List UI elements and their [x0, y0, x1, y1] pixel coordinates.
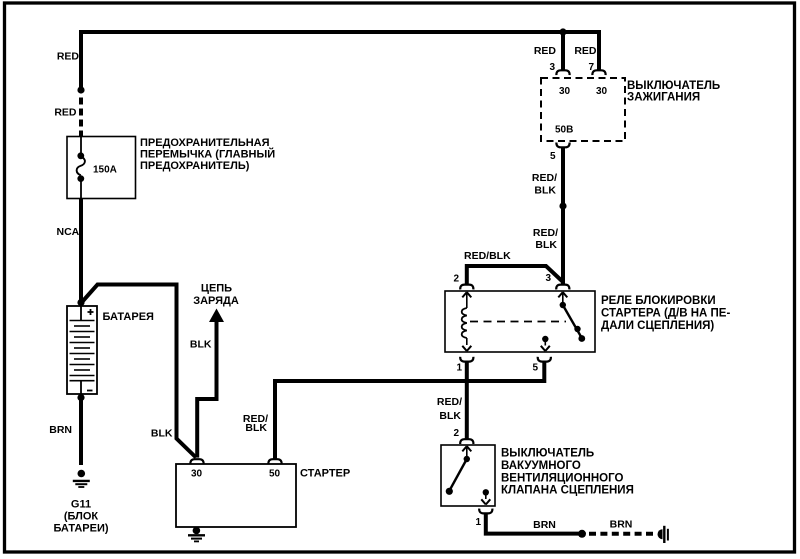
svg-text:ЗАРЯДА: ЗАРЯДА — [193, 295, 239, 307]
svg-text:50В: 50В — [555, 125, 573, 136]
relay switch — [558, 292, 567, 297]
svg-text:ЗАЖИГАНИЯ: ЗАЖИГАНИЯ — [627, 92, 700, 104]
svg-text:BRN: BRN — [49, 424, 72, 436]
battery — [67, 306, 97, 394]
node: BRN splice — [578, 530, 586, 538]
wire: RED/BLK relay pin 1 to clutch switch — [465, 361, 469, 438]
svg-text:BLK: BLK — [245, 422, 267, 434]
relay K1: starter interlock — [445, 285, 595, 362]
node: splice on RED/BLK — [559, 202, 566, 209]
label RED/BLK (lower) — [533, 227, 558, 251]
wire: RED drop to battery circuit — [79, 30, 83, 88]
relay pin 5 contact — [542, 336, 548, 342]
ground G11 — [73, 470, 90, 487]
fuse F1 150A (main fuse box) — [67, 137, 136, 199]
svg-text:BLK: BLK — [439, 410, 461, 422]
svg-text:ВЫКЛЮЧАТЕЛЬ: ВЫКЛЮЧАТЕЛЬ — [501, 448, 594, 460]
svg-text:ВЫКЛЮЧАТЕЛЬ: ВЫКЛЮЧАТЕЛЬ — [627, 80, 720, 92]
label RED/BLK (to clutch switch) — [437, 396, 462, 422]
svg-text:ВЕНТИЛЯЦИОННОГО: ВЕНТИЛЯЦИОННОГО — [501, 472, 623, 484]
svg-text:30: 30 — [596, 86, 608, 97]
svg-text:КЛАПАНА СЦЕПЛЕНИЯ: КЛАПАНА СЦЕПЛЕНИЯ — [501, 485, 634, 497]
svg-text:BRN: BRN — [533, 519, 556, 531]
svg-text:30: 30 — [559, 86, 571, 97]
wire: RED feed bus (top) — [81, 32, 599, 70]
ignition switch (dashed box) — [541, 70, 625, 147]
wire: BLK battery positive to starter terminal 30 — [82, 285, 196, 458]
node: battery negative terminal — [77, 394, 84, 401]
svg-text:150A: 150A — [93, 165, 117, 176]
svg-text:RED/: RED/ — [533, 227, 558, 239]
wire: RED/BLK branch to relay pin 2 — [467, 266, 563, 284]
svg-text:СТАРТЕР: СТАРТЕР — [300, 468, 350, 480]
svg-text:RED: RED — [534, 45, 557, 57]
label: clutch switch title — [501, 448, 634, 497]
svg-text:БАТАРЕИ): БАТАРЕИ) — [53, 523, 108, 535]
clutch vacuum vent valve switch — [441, 439, 495, 513]
svg-text:БАТАРЕЯ: БАТАРЕЯ — [103, 311, 155, 323]
svg-text:50: 50 — [269, 469, 281, 480]
svg-text:G11: G11 — [71, 499, 91, 511]
svg-text:RED/: RED/ — [532, 172, 557, 184]
svg-text:5: 5 — [532, 363, 538, 374]
node: battery positive terminal — [77, 299, 84, 306]
svg-text:RED/BLK: RED/BLK — [464, 250, 511, 262]
label: relay title — [601, 295, 730, 332]
relay internal dashed link — [470, 321, 566, 323]
svg-text:NCA: NCA — [57, 226, 80, 238]
wire: BLK to charge circuit (arrow off-page) — [197, 309, 224, 458]
relay coil — [462, 292, 471, 297]
svg-text:RED/: RED/ — [437, 396, 462, 408]
label RED/BLK (upper) — [532, 172, 557, 197]
label: charge circuit — [193, 283, 239, 307]
svg-text:РЕЛЕ БЛОКИРОВКИ: РЕЛЕ БЛОКИРОВКИ — [601, 295, 716, 307]
svg-text:BLK: BLK — [151, 428, 173, 440]
wire: RED/BLK starter 50 to relay pin 5 — [275, 361, 544, 459]
svg-text:ПРЕДОХРАНИТЕЛЬ): ПРЕДОХРАНИТЕЛЬ) — [140, 160, 250, 172]
label G11 (battery block) — [53, 499, 108, 535]
svg-text:5: 5 — [550, 151, 556, 162]
node: splice on RED bus — [559, 28, 566, 35]
svg-text:7: 7 — [588, 62, 594, 73]
svg-text:RED: RED — [54, 107, 77, 119]
wire: BRN clutch switch to splice — [486, 513, 580, 533]
label RED/BLK (starter 50 wire) — [243, 413, 268, 434]
wire: BRN battery to ground — [79, 396, 83, 465]
svg-text:(БЛОК: (БЛОК — [64, 511, 99, 523]
svg-text:ВАКУУМНОГО: ВАКУУМНОГО — [501, 460, 581, 472]
svg-text:ПРЕДОХРАНИТЕЛЬНАЯ: ПРЕДОХРАНИТЕЛЬНАЯ — [140, 137, 270, 149]
svg-text:BLK: BLK — [190, 339, 212, 351]
svg-text:ДАЛИ СЦЕПЛЕНИЯ): ДАЛИ СЦЕПЛЕНИЯ) — [601, 320, 714, 332]
svg-text:RED: RED — [574, 45, 597, 57]
svg-text:BRN: BRN — [610, 519, 633, 531]
svg-text:30: 30 — [191, 469, 203, 480]
label: ignition switch title — [627, 80, 720, 104]
starter S1 — [176, 459, 296, 527]
wire: dashed BRN to ground — [589, 532, 654, 536]
node: splice above fuse — [77, 86, 84, 93]
wire: RED drop to ignition switch pin 3 — [561, 32, 565, 70]
svg-text:ЦЕПЬ: ЦЕПЬ — [201, 283, 232, 295]
label: fuse title — [140, 137, 275, 172]
wire: NCA fuse to battery — [79, 198, 83, 300]
ground (right, off-page) — [658, 526, 668, 543]
wire: RED/BLK ignition to relay pin 3 — [561, 148, 565, 284]
ground (starter) — [188, 527, 205, 542]
wire: dashed RED into fuse — [79, 98, 83, 138]
svg-text:2: 2 — [453, 428, 459, 439]
svg-text:3: 3 — [545, 273, 551, 284]
svg-text:ПЕРЕМЫЧКА (ГЛАВНЫЙ: ПЕРЕМЫЧКА (ГЛАВНЫЙ — [140, 148, 275, 161]
svg-text:3: 3 — [549, 62, 555, 73]
svg-text:1: 1 — [456, 363, 462, 374]
svg-text:RED: RED — [57, 51, 80, 63]
svg-text:2: 2 — [453, 274, 459, 285]
svg-text:СТАРТЕРА (Д/В НА ПЕ-: СТАРТЕРА (Д/В НА ПЕ- — [601, 308, 730, 320]
svg-text:BLK: BLK — [534, 185, 556, 197]
svg-text:BLK: BLK — [535, 239, 557, 251]
relay bottom connectors — [460, 357, 473, 362]
svg-text:1: 1 — [475, 517, 481, 528]
